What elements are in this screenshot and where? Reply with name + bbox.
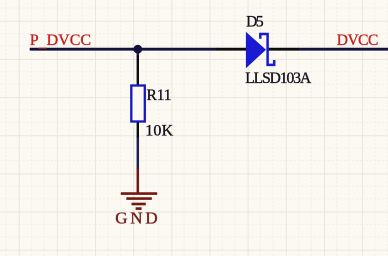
svg-text:LLSD103A: LLSD103A bbox=[245, 70, 312, 87]
resistor R11 body bbox=[131, 86, 145, 122]
wire: right horizontal segment from diode pin to right edge (net DVCC) bbox=[298, 48, 388, 51]
wire: vertical segment from junction down to resistor pin bbox=[137, 48, 140, 57]
svg-text:10K: 10K bbox=[145, 123, 173, 140]
svg-text:P_DVCC: P_DVCC bbox=[30, 32, 91, 50]
ground bar 4 (smallest) bbox=[136, 207, 142, 210]
svg-text:DVCC: DVCC bbox=[337, 32, 379, 49]
ground symbol stem bbox=[137, 169, 140, 194]
diode D5 pin 1 (anode side, black) bbox=[217, 48, 247, 51]
ground bar 2 bbox=[126, 197, 152, 200]
svg-text:R11: R11 bbox=[147, 87, 172, 104]
svg-text:GND: GND bbox=[115, 209, 158, 228]
diode D5 pin 2 (cathode side, black) bbox=[269, 48, 299, 51]
diode D5 schottky cathode bar with hooks bbox=[260, 34, 274, 65]
junction dot at P_DVCC node bbox=[133, 45, 142, 54]
resistor R11 pin 1 (top, black) bbox=[137, 56, 139, 87]
diode D5 body: filled triangle (anode) bbox=[246, 32, 266, 68]
resistor R11 pin 2 (bottom, black) bbox=[137, 121, 139, 138]
wire: left horizontal segment from P_DVCC to diode pin bbox=[30, 48, 217, 51]
wire: vertical segment from resistor pin down to ground bbox=[137, 137, 140, 170]
svg-text:D5: D5 bbox=[246, 14, 264, 31]
ground bar 3 bbox=[132, 203, 146, 206]
ground bar 1 (widest) bbox=[121, 192, 157, 195]
